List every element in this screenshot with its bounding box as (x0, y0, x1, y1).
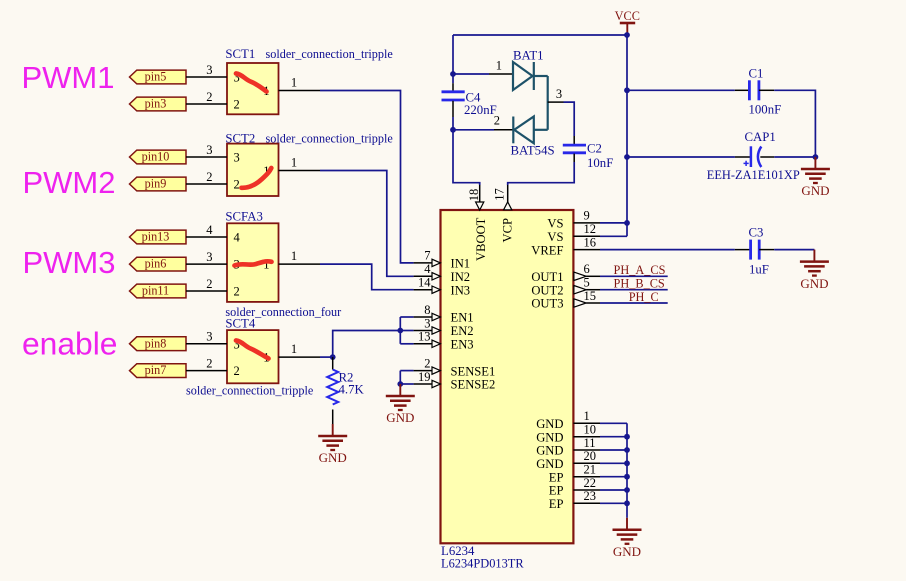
node EN2 junction (397, 328, 403, 334)
svg-text:4.7K: 4.7K (339, 383, 365, 397)
wire GND pin 1 connect (600, 422, 627, 424)
pin 17 VCP stub (492, 185, 512, 210)
svg-text:1uF: 1uF (749, 263, 769, 277)
wire EP pin 23 connect (600, 502, 627, 504)
solder jumper SCT2 body (227, 144, 279, 196)
SCT1 solder blob (236, 74, 267, 92)
wire SCFA3 to IN3 (320, 264, 414, 290)
wire EP pin 22 connect (600, 489, 627, 491)
SCT1 pin 2 wire (186, 103, 227, 105)
node CAP1 ground junction (813, 154, 819, 160)
wire VCC to C1 (627, 89, 735, 91)
svg-text:OUT1: OUT1 (531, 270, 563, 284)
svg-text:IN2: IN2 (451, 270, 471, 284)
diode BAT54S (494, 114, 548, 144)
wire VS1 connect (600, 222, 627, 224)
node ground bus junction (624, 487, 630, 493)
wire to SENSE2 (400, 383, 413, 385)
wire VS2 connect (600, 235, 627, 237)
wire SCT2 to IN2 (320, 171, 414, 277)
svg-text:18: 18 (467, 189, 481, 202)
svg-text:12: 12 (584, 222, 597, 236)
svg-text:pin10: pin10 (142, 150, 170, 164)
svg-text:PWM3: PWM3 (23, 245, 116, 280)
svg-text:11: 11 (584, 436, 596, 450)
wire EN bus (399, 317, 401, 344)
svg-text:GND: GND (319, 450, 347, 465)
capacitor C4 (442, 74, 497, 117)
ground at CAP1 (801, 157, 830, 198)
node ground bus junction (624, 500, 630, 506)
svg-text:pin11: pin11 (142, 284, 169, 298)
SCFA3 pin 4 wire (186, 236, 227, 238)
pin 14 IN3 (414, 276, 441, 294)
port pin10 (130, 150, 187, 164)
wire OUT3 PH_C (600, 302, 668, 304)
wire C2 to VCP (508, 162, 575, 185)
SCT1 pin 1 stub (279, 90, 321, 92)
svg-text:22: 22 (584, 476, 597, 490)
svg-text:CAP1: CAP1 (745, 130, 776, 144)
wire VCC rail vertical (626, 35, 628, 236)
svg-text:13: 13 (418, 330, 431, 344)
svg-text:16: 16 (584, 235, 597, 249)
SCT2 solder blob (242, 168, 272, 188)
svg-text:2: 2 (234, 285, 240, 299)
svg-text:OUT3: OUT3 (531, 297, 563, 311)
svg-text:2: 2 (494, 114, 500, 128)
svg-text:15: 15 (584, 289, 597, 303)
ground below IC (613, 518, 642, 559)
svg-text:IN1: IN1 (451, 257, 471, 271)
svg-text:C3: C3 (749, 226, 764, 240)
svg-text:EN3: EN3 (451, 338, 474, 352)
svg-text:3: 3 (234, 151, 240, 165)
svg-text:19: 19 (418, 370, 431, 384)
svg-text:OUT2: OUT2 (531, 283, 563, 297)
pin 23 EP (573, 489, 600, 503)
pin 22 EP (573, 476, 600, 490)
wire top rail horizontal (453, 34, 627, 36)
svg-text:23: 23 (584, 489, 597, 503)
svg-text:solder_connection_tripple: solder_connection_tripple (266, 131, 393, 145)
node ground bus junction (624, 434, 630, 440)
wire VCC to CAP1 (627, 156, 735, 158)
SCT2 pin 1 stub (279, 170, 321, 172)
pin 16 VREF (573, 235, 600, 249)
SCT2 pin 2 wire (186, 183, 227, 185)
wire SCT4 to node (320, 356, 333, 358)
svg-text:VS: VS (547, 230, 563, 244)
svg-text:GND: GND (801, 183, 829, 198)
SCFA3 pin 3 wire (186, 263, 227, 265)
svg-text:BAT1: BAT1 (513, 49, 544, 63)
svg-text:VBOOT: VBOOT (474, 217, 488, 261)
svg-text:1: 1 (291, 249, 297, 263)
wire GND pin 11 connect (600, 449, 627, 451)
port pin9 (130, 177, 187, 191)
wire C1 to corner (774, 90, 815, 157)
svg-text:2: 2 (424, 356, 430, 370)
svg-text:EP: EP (549, 497, 564, 511)
capacitor CAP1 (735, 146, 774, 167)
ground below SENSE pins (386, 384, 415, 425)
svg-text:4: 4 (424, 262, 431, 276)
pin 12 VS (573, 222, 600, 236)
wire left rail upper (452, 35, 454, 74)
resistor R2 (327, 357, 364, 424)
pin 7 IN1 (414, 249, 441, 267)
svg-text:8: 8 (424, 303, 430, 317)
pin 3 common stub (548, 101, 564, 103)
svg-text:GND: GND (800, 276, 828, 291)
node SENSE2 junction (397, 381, 403, 387)
svg-text:PH_C: PH_C (629, 290, 659, 304)
svg-text:14: 14 (418, 276, 431, 290)
node ground bus junction (624, 447, 630, 453)
pin 8 EN1 (414, 303, 441, 321)
svg-text:IN3: IN3 (451, 283, 471, 297)
svg-text:2: 2 (234, 364, 240, 378)
node CAP1 branch junction (624, 154, 630, 160)
svg-text:3: 3 (424, 316, 430, 330)
port pin6 (130, 257, 187, 271)
svg-text:3: 3 (206, 143, 212, 157)
svg-text:9: 9 (584, 209, 590, 223)
pin 3 EN2 (414, 316, 441, 334)
svg-text:GND: GND (536, 430, 563, 444)
wire EP pin 21 connect (600, 476, 627, 478)
wire CAP1 to ground (774, 156, 815, 158)
wire ground bus (626, 423, 628, 518)
SCFA3 pin 1 stub (279, 263, 321, 265)
SCT4 pin 1 stub (279, 356, 321, 358)
wire to SENSE1 (400, 370, 413, 372)
SCT1 pin 3 wire (186, 76, 227, 78)
svg-text:VS: VS (547, 217, 563, 231)
pin 1 GND (573, 409, 600, 423)
SCFA3 solder blob (235, 261, 272, 265)
wire GND pin 10 connect (600, 436, 627, 438)
wire SENSE bus (399, 371, 401, 384)
capacitor C2 (563, 136, 614, 170)
node VS branch junction (624, 220, 630, 226)
svg-text:SENSE2: SENSE2 (451, 378, 496, 392)
svg-text:pin8: pin8 (145, 336, 167, 350)
wire to EN2 (400, 330, 413, 332)
svg-text:GND: GND (536, 457, 563, 471)
svg-text:C1: C1 (749, 67, 764, 81)
svg-text:SCT1: SCT1 (225, 47, 255, 61)
node enable junction (330, 354, 336, 360)
wire BAT54S connect (453, 129, 494, 131)
pin 11 GND (573, 436, 600, 450)
port pin11 (130, 284, 187, 298)
svg-text:SENSE1: SENSE1 (451, 364, 496, 378)
svg-text:3: 3 (206, 63, 212, 77)
svg-text:1: 1 (291, 76, 297, 90)
svg-text:1: 1 (496, 59, 502, 73)
port pin13 (130, 230, 187, 244)
node ground bus junction (624, 474, 630, 480)
svg-text:2: 2 (206, 170, 212, 184)
wire pin3 to C2 (564, 102, 575, 136)
svg-text:L6234PD013TR: L6234PD013TR (441, 557, 524, 571)
svg-text:VREF: VREF (531, 243, 563, 257)
port pin5 (130, 70, 187, 84)
pin 10 GND (573, 423, 600, 437)
capacitor C1 (735, 67, 781, 117)
node ground bus junction (624, 460, 630, 466)
wire C3 to ground (774, 249, 814, 251)
svg-text:EP: EP (549, 470, 564, 484)
svg-text:2: 2 (206, 90, 212, 104)
wire enable riser (333, 331, 401, 358)
SCT2 pin 3 wire (186, 156, 227, 158)
ground below R2 (318, 424, 347, 465)
wire BAT1 connect (453, 73, 489, 75)
pin 13 EN3 (414, 330, 441, 348)
svg-text:PH_A_CS: PH_A_CS (614, 263, 666, 277)
pin 18 VBOOT stub (467, 185, 484, 211)
svg-text:10: 10 (584, 423, 597, 437)
svg-text:GND: GND (386, 410, 414, 425)
svg-text:C2: C2 (587, 142, 602, 156)
svg-text:3: 3 (206, 330, 212, 344)
node BAT1 junction (450, 71, 456, 77)
pin 6 OUT1 (574, 262, 600, 280)
svg-text:PH_B_CS: PH_B_CS (614, 277, 665, 291)
svg-text:2: 2 (206, 277, 212, 291)
port pin8 (130, 336, 187, 350)
svg-text:3: 3 (206, 250, 212, 264)
solder jumper SCT1 body (227, 63, 279, 114)
svg-text:6: 6 (584, 262, 590, 276)
capacitor C3 (735, 226, 774, 277)
SCT4 solder blob (236, 341, 269, 359)
solder jumper SCT4 body (227, 330, 279, 383)
svg-text:5: 5 (584, 276, 590, 290)
svg-text:GND: GND (613, 544, 641, 559)
power symbol VCC (615, 9, 640, 35)
svg-text:220nF: 220nF (464, 103, 497, 117)
wire diode common cathode (547, 76, 549, 130)
svg-text:7: 7 (424, 249, 430, 263)
node C1 branch junction (624, 87, 630, 93)
svg-text:VCP: VCP (501, 218, 515, 242)
svg-text:EP: EP (549, 484, 564, 498)
svg-text:100nF: 100nF (749, 103, 782, 117)
svg-text:pin5: pin5 (145, 70, 167, 84)
wire to EN1 (400, 316, 413, 318)
pin 4 IN2 (414, 262, 441, 280)
svg-text:2: 2 (234, 98, 240, 112)
diode BAT1 (489, 59, 548, 91)
svg-text:20: 20 (584, 449, 597, 463)
port pin3 (130, 97, 187, 111)
svg-text:solder_connection_tripple: solder_connection_tripple (186, 384, 313, 398)
svg-text:17: 17 (492, 188, 506, 201)
svg-text:2: 2 (206, 356, 212, 370)
svg-text:1: 1 (291, 342, 297, 356)
pin 2 SENSE1 (414, 356, 441, 374)
SCFA3 pin 2 wire (186, 290, 227, 292)
svg-text:GND: GND (536, 417, 563, 431)
port pin7 (130, 363, 187, 377)
wire left rail lower (453, 117, 480, 185)
svg-text:pin9: pin9 (145, 177, 167, 191)
SCT4 pin 3 wire (186, 343, 227, 345)
svg-text:SCT4: SCT4 (225, 316, 255, 330)
svg-text:2: 2 (234, 178, 240, 192)
pin 21 EP (573, 463, 600, 477)
wire OUT2 PH_B_CS (600, 289, 668, 291)
pin 20 GND (573, 449, 600, 463)
svg-text:4: 4 (234, 231, 241, 245)
svg-text:BAT54S: BAT54S (511, 144, 555, 158)
pin 19 SENSE2 (414, 370, 441, 388)
SCT4 pin 2 wire (186, 370, 227, 372)
wire GND pin 20 connect (600, 462, 627, 464)
IC L6234 body (441, 210, 574, 543)
pin 5 OUT2 (574, 276, 600, 294)
svg-text:3: 3 (556, 87, 562, 101)
solder jumper SCFA3 body (227, 223, 279, 302)
wire OUT1 PH_A_CS (600, 275, 668, 277)
pin 9 VS (573, 209, 600, 223)
svg-text:EN1: EN1 (451, 311, 474, 325)
svg-text:pin6: pin6 (145, 257, 167, 271)
node VCC top junction (624, 32, 630, 38)
svg-text:21: 21 (584, 463, 597, 477)
svg-text:EN2: EN2 (451, 324, 474, 338)
svg-text:10nF: 10nF (587, 156, 613, 170)
wire to EN3 (400, 343, 413, 345)
wire SCT1 to IN1 (320, 91, 414, 263)
svg-text:PWM2: PWM2 (23, 165, 116, 200)
pin 15 OUT3 (574, 289, 600, 307)
svg-text:GND: GND (536, 444, 563, 458)
svg-text:EEH-ZA1E101XP: EEH-ZA1E101XP (707, 168, 800, 182)
ground at C3 (800, 250, 829, 291)
svg-text:1: 1 (584, 409, 590, 423)
svg-text:pin7: pin7 (145, 363, 167, 377)
svg-text:enable: enable (22, 325, 117, 361)
svg-text:pin3: pin3 (145, 97, 167, 111)
wire VREF to C3 (600, 249, 735, 251)
svg-text:1: 1 (291, 156, 297, 170)
svg-text:VCC: VCC (615, 9, 640, 23)
svg-text:PWM1: PWM1 (22, 60, 115, 95)
svg-text:4: 4 (206, 223, 213, 237)
svg-text:solder_connection_tripple: solder_connection_tripple (266, 47, 393, 61)
node BAT54S junction (450, 127, 456, 133)
svg-text:SCFA3: SCFA3 (225, 209, 262, 223)
svg-text:pin13: pin13 (142, 230, 170, 244)
